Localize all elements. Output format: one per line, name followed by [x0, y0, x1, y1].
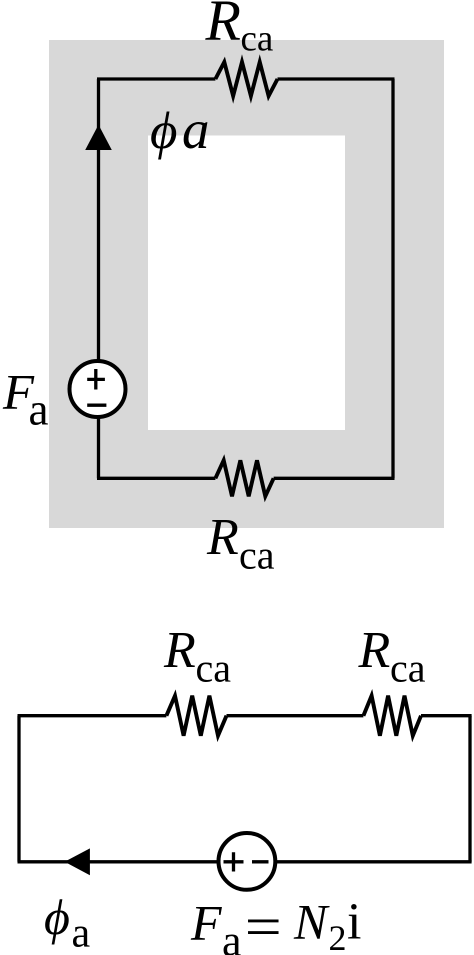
wire top segment 3 (bottom circuit) [421, 714, 472, 717]
svg-text:F: F [190, 895, 222, 951]
wire bottom-right segment [274, 477, 395, 480]
svg-text:a: a [182, 99, 210, 160]
flux arrow (phi-a direction, up) [85, 125, 112, 150]
source minus sign [87, 404, 106, 407]
svg-text:ca: ca [196, 646, 232, 691]
svg-text:ca: ca [239, 533, 275, 578]
source plus sign [87, 369, 105, 390]
svg-text:ϕ: ϕ [44, 889, 70, 945]
svg-text:a: a [222, 917, 242, 955]
wire top-left segment [97, 77, 215, 80]
svg-text:ϕ: ϕ [150, 102, 177, 160]
svg-text:i: i [347, 894, 361, 951]
resistor R_ca (right, bottom circuit) [363, 696, 421, 736]
resistor R_ca (bottom of core) [215, 460, 273, 496]
wire top segment 2 (bottom circuit) [227, 714, 364, 717]
wire right (top circuit) [391, 79, 394, 478]
flux arrow (phi-a, pointing left, bottom circuit) [65, 848, 90, 875]
svg-text:ca: ca [390, 646, 426, 691]
svg-text:N: N [293, 894, 330, 950]
resistor R_ca (top) [215, 62, 277, 96]
wire left (top circuit) [97, 79, 100, 478]
svg-text:=: = [245, 894, 282, 955]
mmf source F_a (circle) [70, 361, 126, 417]
wire bottom segment (bottom circuit) [18, 860, 472, 863]
svg-text:R: R [205, 0, 241, 53]
source plus sign (bottom circuit) [224, 852, 244, 871]
svg-text:a: a [72, 911, 91, 955]
svg-text:a: a [29, 385, 49, 435]
magnetic core (shaded region) [49, 40, 444, 528]
svg-text:ca: ca [241, 19, 274, 60]
mmf source (circle, bottom circuit) [219, 833, 276, 890]
wire bottom-left segment [97, 477, 215, 480]
wire top segment 1 (bottom circuit) [18, 714, 167, 717]
svg-text:R: R [163, 622, 196, 679]
svg-text:R: R [358, 622, 391, 679]
core window [148, 136, 345, 431]
wire right (bottom circuit) [468, 716, 471, 862]
svg-text:R: R [206, 509, 239, 566]
resistor R_ca (left, bottom circuit) [166, 696, 226, 736]
source minus sign (bottom circuit) [252, 860, 269, 863]
wire left (bottom circuit) [17, 716, 20, 862]
wire top-right segment [278, 77, 395, 80]
svg-text:2: 2 [329, 918, 347, 955]
